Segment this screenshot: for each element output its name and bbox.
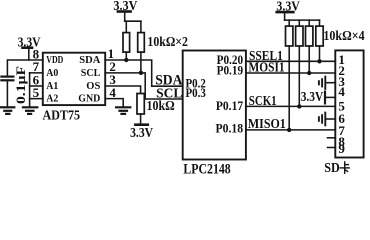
ground sideways at SD pin6 [326,118,336,120]
power 3.3V below R3 [135,123,147,126]
svg-text:GND: GND [78,93,100,105]
pin 8 stub [328,137,336,139]
power 3.3V right [276,0,300,14]
svg-text:SCK1: SCK1 [249,93,277,108]
junction dot R4/MISO1 [287,128,291,132]
junction dot R2/SCL [139,71,143,75]
resistor R2 10k (SCL pull-up) [140,21,142,32]
IC U1 ADT75 temperature sensor [43,53,105,105]
svg-text:0.1µF: 0.1µF [13,66,28,104]
Chinese character ka (card) drawn with strokes [340,162,349,173]
svg-text:4: 4 [338,84,345,99]
junction dot R1/SDA [124,58,128,62]
svg-text:SD: SD [324,160,340,175]
power 3.3V sideways at SD pin4 [325,96,335,98]
junction dot R6/MOSI1 [307,71,311,75]
wire MISO1 net [246,129,335,131]
pin 9 stub [328,147,336,149]
wire OS pin3 to R3 [105,86,140,94]
net label SCL [156,86,182,101]
resistor R4 10k (MISO1 pull-up) [288,20,290,26]
power 3.3V left [18,36,41,51]
junction dot R7/SSEL1 [317,59,321,63]
wire MOSI1 net [246,72,335,74]
svg-text:A1: A1 [46,80,58,92]
svg-text:P0.3: P0.3 [186,85,207,100]
value label 0.1uF [13,66,28,104]
svg-text:VDD: VDD [46,54,63,66]
wire pull-up bus right [285,19,320,21]
resistor R3 10k (OS pull-up) [137,94,144,115]
svg-text:SDA: SDA [79,54,100,66]
svg-text:10kΩ×2: 10kΩ×2 [147,35,188,50]
svg-text:LPC2148: LPC2148 [183,161,230,177]
svg-text:P0.18: P0.18 [216,121,244,136]
net label SDA [155,72,182,88]
resistor R7 10k (SSEL1 pull-up) [319,20,321,26]
svg-text:SCL: SCL [81,67,101,79]
wire pin7 row [30,72,43,74]
wire pin6 row [30,85,43,87]
resistor R5 10k (SCK1 pull-up) [298,20,300,26]
wire SCL net: pin2 to P0.3 [105,73,183,99]
wire pin5 row [30,98,43,100]
wire SSEL1 net [246,60,335,62]
svg-text:ADT75: ADT75 [43,109,81,124]
svg-text:9: 9 [338,141,345,156]
svg-text:P0.17: P0.17 [216,98,244,113]
svg-text:P0.19: P0.19 [217,62,244,77]
svg-text:A0: A0 [46,67,58,79]
svg-text:10kΩ: 10kΩ [147,99,175,114]
svg-text:3.3V: 3.3V [301,89,324,104]
svg-text:4: 4 [109,85,116,100]
capacitor C1 0.1uF [1,75,13,77]
wire A0/A1/A2 common vertical [29,73,31,107]
label SD card [324,160,340,175]
svg-text:A2: A2 [46,93,58,105]
resistor R1 10k (SDA pull-up) [125,21,127,32]
SD card connector box [335,50,363,157]
svg-text:MISO1: MISO1 [248,116,286,131]
wire GND pin4 to ground [105,99,123,108]
wire 3.3V drop to pin8 [28,48,30,60]
svg-text:OS: OS [86,80,100,92]
junction dot R5/SCK1 [297,104,301,108]
ground under capacitor [1,106,14,108]
value label 10k ohm x4 [323,29,364,44]
value label 10k ohm x2 [147,35,188,50]
ground for A0/A1/A2 [23,106,37,108]
power 3.3V middle [113,0,137,14]
resistor R6 10k (MOSI1 pull-up) [308,20,310,26]
wire pull-up bus [125,20,141,22]
svg-text:3.3V: 3.3V [130,126,153,141]
wire SCK1 net [246,105,335,107]
IC U2 LPC2148 microcontroller [183,51,246,160]
wire SDA net: pin1 to P0.2 [105,60,183,86]
ground sideways at SD pin3 [326,82,336,84]
svg-text:10kΩ×4: 10kΩ×4 [323,29,364,44]
wire pin8/VDD row [7,60,42,76]
svg-text:MOSI1: MOSI1 [249,59,285,74]
ground at ADT75 GND [116,106,130,108]
svg-text:5: 5 [33,85,40,100]
